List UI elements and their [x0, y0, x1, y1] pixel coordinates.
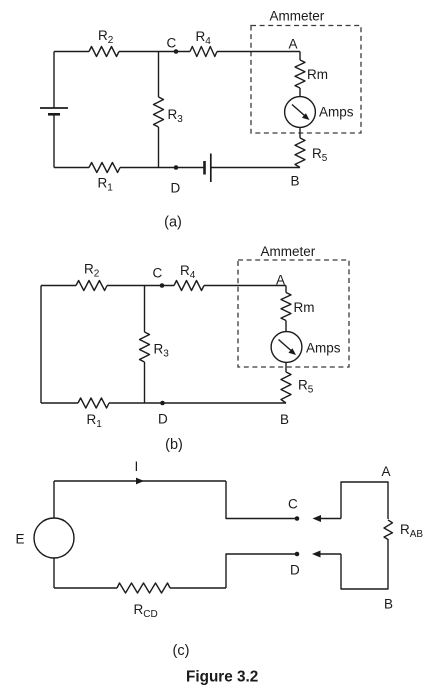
ammeter meter Amps (b): [271, 332, 341, 363]
wire bottom-left segment (b): [41, 402, 78, 404]
node D (c): [290, 552, 300, 578]
wire bottom-left segment (c): [54, 587, 117, 589]
battery near D (a): [205, 154, 211, 183]
wire meter to R5 (a): [299, 127, 301, 138]
resistor R1 (b): [78, 398, 109, 430]
svg-text:(a): (a): [164, 215, 182, 231]
resistor Rm (b): [281, 293, 315, 321]
svg-text:B: B: [384, 597, 393, 612]
svg-text:D: D: [171, 181, 181, 196]
arrow toward node D (c): [312, 551, 341, 558]
wire top-left segment (a): [54, 51, 89, 53]
wire top middle segment (b): [107, 285, 174, 287]
svg-text:Rm: Rm: [294, 300, 315, 315]
wire lower step to node D (c): [226, 554, 297, 588]
wire top middle segment (a): [119, 51, 190, 53]
svg-text:D: D: [158, 412, 168, 427]
svg-text:Amps: Amps: [306, 341, 341, 356]
wire top segment with current arrow (c): [54, 459, 226, 484]
wire bottom middle segment (a): [120, 167, 205, 169]
node D (b): [158, 401, 168, 427]
wire ammeter branch upper (b): [285, 286, 287, 293]
wire left rail lower (a): [53, 114, 55, 167]
svg-text:C: C: [288, 497, 298, 512]
resistor R4 (b): [174, 263, 204, 291]
node D (a): [171, 165, 181, 195]
arrow toward node C (c): [313, 515, 342, 522]
wire Rm to meter (a): [299, 88, 301, 97]
resistor Rm (a): [295, 60, 328, 88]
wire left rail lower (c): [53, 558, 55, 588]
ammeter meter Amps (a): [285, 97, 354, 128]
wire right bracket upper (c): [341, 482, 388, 519]
wire R3 branch lower (b): [144, 362, 146, 403]
wire ammeter branch upper (a): [299, 52, 301, 61]
node C (b): [153, 266, 165, 288]
wire top right segment to ammeter (a): [217, 51, 300, 53]
resistor R5 (a): [295, 138, 328, 168]
resistor R3 (a): [154, 97, 184, 127]
wire left rail upper (c): [53, 481, 55, 518]
wire top-left segment (b): [41, 285, 76, 287]
wire R3 branch upper (a): [158, 52, 160, 98]
resistor R2 (b): [76, 262, 107, 291]
svg-text:Amps: Amps: [319, 105, 354, 120]
battery E left rail (a): [40, 108, 68, 114]
svg-text:A: A: [382, 464, 391, 479]
wire left rail (b): [40, 286, 42, 404]
wire bottom right segment (a): [211, 167, 300, 169]
wire left rail upper (a): [53, 52, 55, 109]
wire R3 branch lower (a): [158, 127, 160, 168]
svg-text:(b): (b): [165, 437, 183, 453]
ammeter dashed box (b): [238, 260, 349, 367]
svg-text:C: C: [153, 266, 163, 281]
svg-text:Ammeter: Ammeter: [261, 244, 316, 259]
resistor R3 (b): [140, 332, 170, 362]
ammeter dashed box (a): [251, 26, 361, 134]
svg-text:Figure 3.2: Figure 3.2: [186, 669, 258, 686]
resistor RAB (c): [384, 520, 423, 540]
wire right bracket lower (c): [341, 539, 388, 589]
wire top right segment to ammeter (b): [204, 285, 286, 287]
node C (c): [288, 497, 299, 521]
svg-text:E: E: [16, 532, 25, 547]
svg-text:C: C: [167, 36, 177, 51]
wire upper step to node C (c): [226, 481, 297, 519]
resistor R4 (a): [190, 29, 217, 57]
svg-text:B: B: [291, 174, 300, 189]
resistor R1 (a): [89, 163, 120, 194]
node C (a): [167, 36, 179, 54]
svg-text:B: B: [280, 412, 289, 427]
resistor R2 (a): [89, 28, 119, 57]
wire bottom right segment (b): [109, 402, 286, 404]
svg-text:Rm: Rm: [307, 67, 328, 82]
wire R3 branch upper (b): [144, 286, 146, 333]
wire Rm to meter (b): [285, 321, 287, 332]
svg-text:(c): (c): [173, 643, 190, 659]
wire bottom segment to step (c): [170, 587, 226, 589]
wire meter to R5 (b): [285, 362, 287, 372]
svg-text:A: A: [289, 37, 298, 52]
svg-text:Ammeter: Ammeter: [270, 9, 325, 24]
svg-text:I: I: [135, 459, 139, 474]
resistor RCD (c): [117, 583, 170, 620]
source E (c): [16, 518, 75, 558]
wire bottom-left segment (a): [54, 167, 89, 169]
svg-text:D: D: [290, 563, 300, 578]
svg-text:A: A: [276, 273, 285, 288]
resistor R5 (b): [281, 372, 314, 403]
